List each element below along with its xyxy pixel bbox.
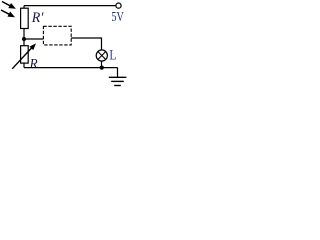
5V terminal circle xyxy=(116,3,121,8)
wire dashed box to lamp xyxy=(71,38,101,50)
lamp L circle xyxy=(96,50,107,61)
ground bar 2 xyxy=(111,80,124,82)
node B junction dot xyxy=(100,66,104,70)
rheostat R body xyxy=(21,46,29,63)
svg-text:L: L xyxy=(109,47,116,63)
rheostat R bottom lead xyxy=(23,63,25,68)
lamp L cross xyxy=(98,52,106,60)
wire node A down to R xyxy=(23,39,25,46)
svg-text:5V: 5V xyxy=(111,10,123,25)
photoresistor R' bottom lead xyxy=(23,29,25,40)
svg-text:R: R xyxy=(29,57,38,72)
rheostat R arrow xyxy=(12,43,36,68)
ground bar 3 xyxy=(114,85,121,87)
bottom wire xyxy=(24,67,118,69)
lamp bottom lead xyxy=(101,55,103,68)
ground bar 1 xyxy=(109,76,127,78)
svg-text:R′: R′ xyxy=(31,10,44,26)
light arrow 1 xyxy=(2,2,16,9)
photoresistor R' body xyxy=(21,8,29,28)
photoresistor R' top lead xyxy=(23,6,25,9)
node A junction dot xyxy=(22,37,26,41)
wire node A to dashed box xyxy=(24,38,43,40)
top wire xyxy=(24,5,116,7)
dashed box (control module) xyxy=(43,26,71,45)
ground stub xyxy=(117,68,119,77)
light arrow 2 xyxy=(1,10,15,17)
